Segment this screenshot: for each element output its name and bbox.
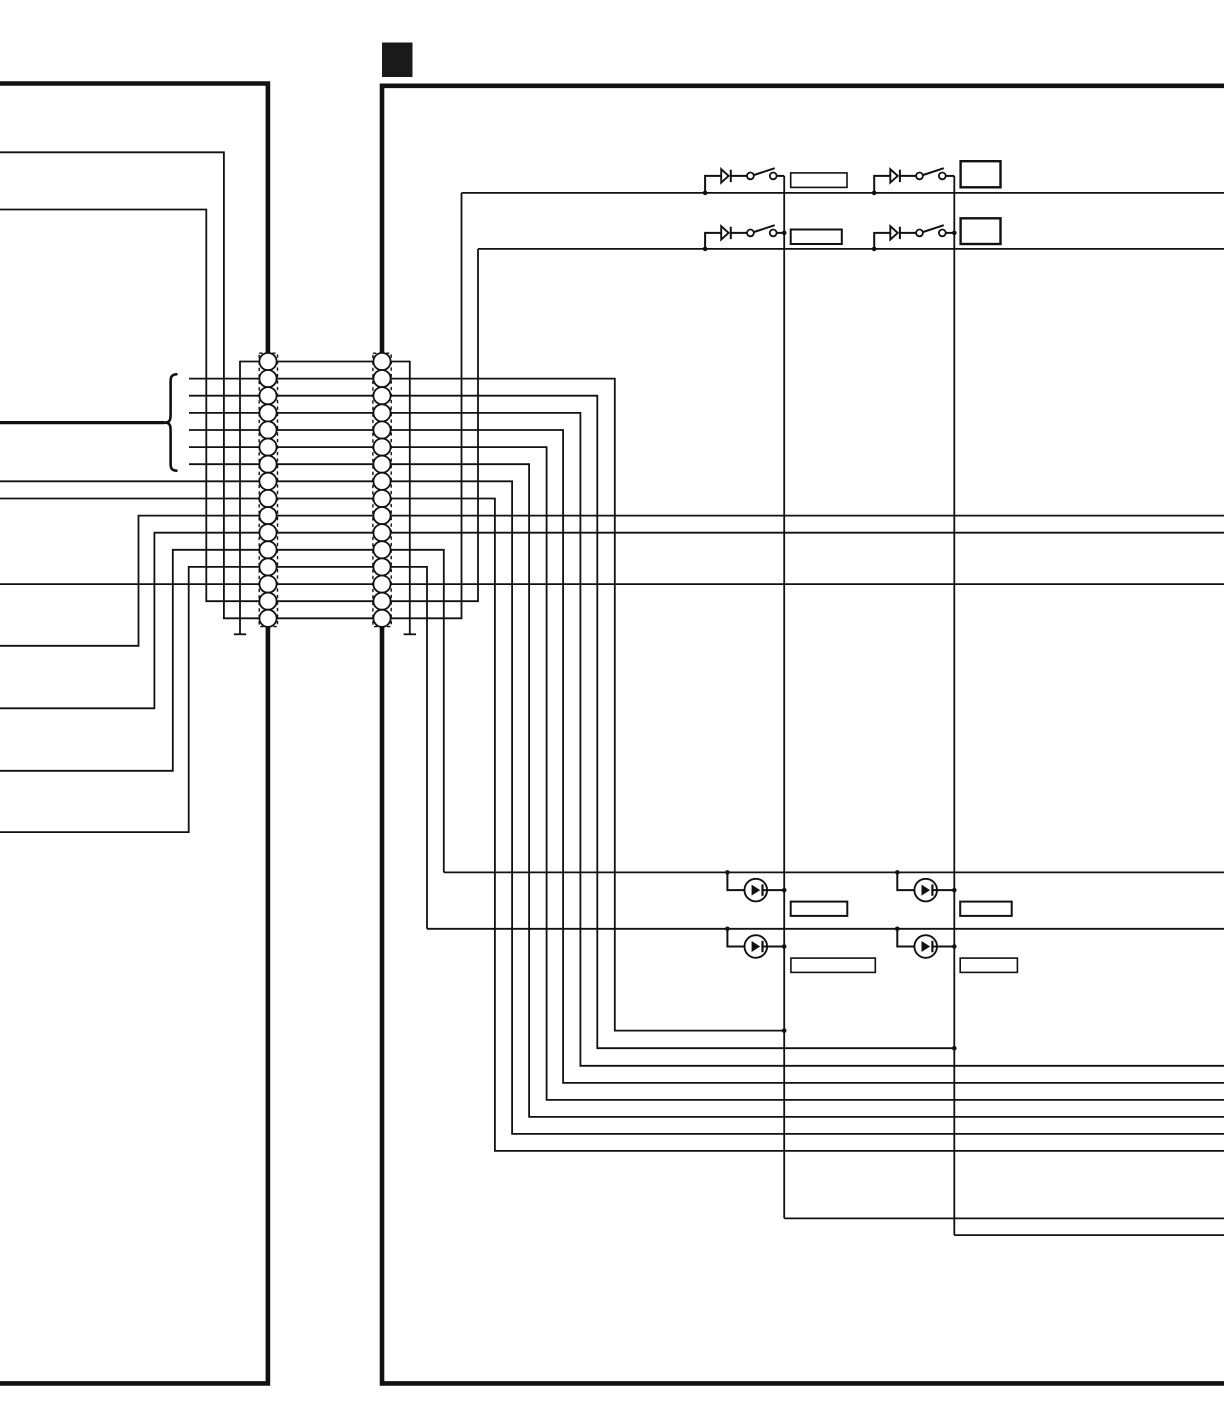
wire CN2 pin 13 to LED row 2 <box>388 567 427 929</box>
harness brace <box>164 374 176 470</box>
diode cathode bar S1 <box>730 170 732 182</box>
wire shield drain vertical right <box>409 361 411 635</box>
LED D4 <box>914 935 937 958</box>
wire switch out S2 <box>946 175 955 177</box>
connector CN1 pin 12 <box>259 541 276 558</box>
wire CN1-CN2 pin 3 link <box>272 395 378 397</box>
junction rail tap S1 <box>703 191 708 196</box>
wire pin1 left to shield drain <box>240 361 262 363</box>
wire CN2 pin 5 to edge <box>388 430 1224 1083</box>
thick harness bus wire <box>0 421 165 424</box>
wire CN1 pin 15 <box>0 210 262 602</box>
diode S4 <box>890 226 897 239</box>
wire CN2 pin 15 riser <box>388 249 478 601</box>
wire CN1 pin 6 to harness brace <box>189 446 262 448</box>
wire CN2 pin 14 to edge <box>388 583 1224 585</box>
label box D4 <box>960 958 1017 972</box>
wire switch out S1 <box>777 175 785 177</box>
connector CN1 pin 9 <box>259 490 276 507</box>
wire CN1 pin 3 to harness brace <box>189 395 262 397</box>
junction switch out S4 <box>952 231 957 236</box>
wire CN2 pin 10 to edge <box>388 515 1224 517</box>
wire CN2 pin 7 to edge <box>388 464 1224 1117</box>
wire diode to switch S4 <box>900 232 916 234</box>
switch contact a S2 <box>916 173 923 180</box>
switch contact b S4 <box>939 230 946 237</box>
wire key column B to edge <box>954 1234 1224 1236</box>
right unit frame border <box>382 86 1224 1384</box>
wire branch S4 <box>874 233 890 249</box>
wire branch S3 <box>705 233 721 249</box>
junction LED tap D1 <box>725 870 730 875</box>
wire CN1-CN2 pin 7 link <box>272 463 378 465</box>
LED cathode bar D4 <box>931 941 933 952</box>
junction LED tap D2 <box>895 870 900 875</box>
wire CN2 pin 4 to edge <box>388 413 1224 1066</box>
wire CN2 pin 16 riser <box>388 193 462 618</box>
ground terminal left shield <box>234 633 246 635</box>
wire CN1-CN2 pin 1 link <box>272 361 378 363</box>
LED anode triangle D4 <box>922 941 931 952</box>
connector CN1 pin 2 <box>259 370 276 387</box>
wire CN1 pin 12 <box>0 550 262 771</box>
left unit frame border <box>0 84 268 1384</box>
connector CN1 pin 13 <box>259 558 276 575</box>
junction rail tap S4 <box>872 247 877 252</box>
wire CN1-CN2 pin 5 link <box>272 429 378 431</box>
wire LED out D4 <box>932 946 954 948</box>
label box D3 <box>791 958 875 972</box>
connector CN2 pin 3 <box>373 387 390 404</box>
section marker square <box>382 43 413 78</box>
wire CN1-CN2 pin 12 link <box>272 549 378 551</box>
junction switch out S3 <box>782 231 787 236</box>
LED anode triangle D3 <box>752 941 761 952</box>
wire CN1 pin 13 <box>0 567 262 832</box>
junction pin2/columnA <box>782 1028 787 1033</box>
LED cathode bar D2 <box>931 884 933 895</box>
switch blade S1 <box>754 168 775 175</box>
wire CN1-CN2 pin 13 link <box>272 566 378 568</box>
connector CN2 pin 6 <box>373 439 390 456</box>
wire CN2 pin 2 to key switch column A <box>388 379 784 1031</box>
wire CN1 pin 5 to harness brace <box>189 429 262 431</box>
wire switch rail 1 <box>462 192 1224 194</box>
LED cathode bar D1 <box>761 884 763 895</box>
wire CN1-CN2 pin 16 link <box>272 617 378 619</box>
wire LED branch D4 <box>897 929 914 947</box>
label box S4 <box>961 218 1001 244</box>
wire LED out D3 <box>763 946 785 948</box>
connector CN2 pin 5 <box>373 421 390 438</box>
connector CN1 pin 4 <box>259 404 276 421</box>
connector CN1 housing (dashed) <box>259 353 277 626</box>
connector CN1 pin 1 <box>259 353 276 370</box>
wire CN2 pin 6 to edge <box>388 447 1224 1100</box>
wire CN1 pin 4 to harness brace <box>189 412 262 414</box>
wire LED out D2 <box>932 889 954 891</box>
wire CN2 pin 9 to edge <box>388 499 1224 1151</box>
connector CN1 pin 8 <box>259 473 276 490</box>
LED anode triangle D1 <box>752 885 761 896</box>
diode cathode bar S3 <box>730 227 732 239</box>
diode S1 <box>721 169 728 182</box>
diode cathode bar S4 <box>899 227 901 239</box>
wire shield drain vertical left <box>239 361 241 635</box>
switch contact a S1 <box>747 173 754 180</box>
connector CN2 pin 2 <box>373 370 390 387</box>
wire CN2 pin 12 to LED row 1 <box>388 550 444 873</box>
junction LED out D4 <box>952 944 957 949</box>
connector CN2 pin 15 <box>373 593 390 610</box>
wire CN1 pin 16 <box>0 152 262 618</box>
junction LED tap D3 <box>725 927 730 932</box>
switch contact a S4 <box>916 230 923 237</box>
connector CN1 pin 6 <box>259 439 276 456</box>
switch contact b S3 <box>770 230 777 237</box>
switch contact b S1 <box>770 173 777 180</box>
connector CN2 pin 14 <box>373 576 390 593</box>
wire CN1-CN2 pin 4 link <box>272 412 378 414</box>
wire LED rail 1 <box>444 871 1224 873</box>
junction rail tap S3 <box>703 247 708 252</box>
wire CN1-CN2 pin 6 link <box>272 446 378 448</box>
connector CN2 pin 9 <box>373 490 390 507</box>
connector CN1 pin 5 <box>259 421 276 438</box>
wire CN1-CN2 pin 10 link <box>272 515 378 517</box>
connector CN2 pin 4 <box>373 404 390 421</box>
connector CN2 pin 7 <box>373 456 390 473</box>
wire CN1 pin 11 <box>0 533 262 709</box>
wire key column A vertical <box>783 176 785 1219</box>
wire CN2 pin 11 to edge <box>388 532 1224 534</box>
diode S2 <box>890 169 897 182</box>
wire key column B vertical <box>953 176 955 1235</box>
connector CN1 pin 15 <box>259 593 276 610</box>
LED D3 <box>745 935 768 958</box>
wire LED branch D1 <box>727 872 744 890</box>
label box D2 <box>960 902 1012 916</box>
wire CN1-CN2 pin 14 link <box>272 583 378 585</box>
switch blade S4 <box>923 225 944 232</box>
wire CN2 pin 3 to key switch column B <box>388 396 954 1048</box>
wire CN2 pin 8 to edge <box>388 481 1224 1134</box>
ground terminal right shield <box>404 633 416 635</box>
wire CN1 pin 8 <box>0 480 262 482</box>
wire CN1 pin 10 <box>0 516 262 646</box>
wire key column A to edge <box>784 1217 1224 1219</box>
LED cathode bar D3 <box>761 941 763 952</box>
connector CN2 pin 11 <box>373 524 390 541</box>
label box D1 <box>791 902 848 916</box>
junction LED out D2 <box>952 888 957 893</box>
wire LED branch D2 <box>897 872 914 890</box>
junction LED out D3 <box>782 944 787 949</box>
wire LED branch D3 <box>727 929 744 947</box>
connector CN1 pin 14 <box>259 576 276 593</box>
LED anode triangle D2 <box>922 885 931 896</box>
junction rail tap S2 <box>872 191 877 196</box>
connector CN1 pin 10 <box>259 507 276 524</box>
wire LED out D1 <box>763 889 785 891</box>
wire CN1 pin 2 to harness brace <box>189 378 262 380</box>
connector CN2 pin 10 <box>373 507 390 524</box>
switch blade S3 <box>754 225 775 232</box>
wire CN1-CN2 pin 8 link <box>272 480 378 482</box>
wire switch out S3 <box>777 232 785 234</box>
switch contact b S2 <box>939 173 946 180</box>
junction LED tap D4 <box>895 927 900 932</box>
LED D2 <box>914 879 937 902</box>
diode cathode bar S2 <box>899 170 901 182</box>
diode S3 <box>721 226 728 239</box>
wire diode to switch S2 <box>900 175 916 177</box>
wire switch out S4 <box>946 232 955 234</box>
label box S2 <box>961 161 1001 187</box>
wire diode to switch S3 <box>731 232 747 234</box>
connector CN2 housing (dashed) <box>373 353 391 626</box>
wire CN1 pin 9 <box>0 498 262 500</box>
wire CN1-CN2 pin 9 link <box>272 498 378 500</box>
connector CN2 pin 8 <box>373 473 390 490</box>
wire LED rail 2 <box>427 928 1224 930</box>
wire branch S1 <box>705 176 721 193</box>
wire CN1 pin 14 <box>0 583 262 585</box>
label box S1 <box>791 173 847 188</box>
wire CN1-CN2 pin 2 link <box>272 378 378 380</box>
wire diode to switch S1 <box>731 175 747 177</box>
label box S3 <box>791 230 842 245</box>
wire CN1-CN2 pin 11 link <box>272 532 378 534</box>
connector CN1 pin 3 <box>259 387 276 404</box>
connector CN1 pin 11 <box>259 524 276 541</box>
connector CN2 pin 1 <box>373 353 390 370</box>
switch contact a S3 <box>747 230 754 237</box>
switch blade S2 <box>923 168 944 175</box>
connector CN1 pin 16 <box>259 610 276 627</box>
junction pin3/columnB <box>952 1046 957 1051</box>
wire switch rail 2 <box>478 248 1224 250</box>
wire CN1 pin 7 to harness brace <box>189 463 262 465</box>
wire pin1 right to shield drain <box>388 361 410 363</box>
wire CN1-CN2 pin 15 link <box>272 600 378 602</box>
connector CN2 pin 13 <box>373 558 390 575</box>
wire branch S2 <box>874 176 890 193</box>
LED D1 <box>745 879 768 902</box>
connector CN2 pin 12 <box>373 541 390 558</box>
connector CN2 pin 16 <box>373 610 390 627</box>
connector CN1 pin 7 <box>259 456 276 473</box>
junction LED out D1 <box>782 888 787 893</box>
